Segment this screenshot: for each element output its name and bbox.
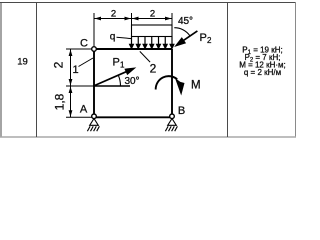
30 deg arc (118, 75, 120, 86)
svg-text:P: P (113, 57, 120, 69)
svg-text:1: 1 (120, 60, 125, 69)
svg-text:2: 2 (150, 62, 157, 76)
frame member C-D (top beam) (94, 48, 172, 50)
left dim extension line at C level (66, 48, 92, 50)
svg-text:2: 2 (207, 36, 212, 45)
svg-text:1,8: 1,8 (53, 93, 67, 110)
support at A (pin with hatching) (87, 119, 99, 132)
q arrows (130, 37, 174, 49)
top dimension extension line above C (93, 13, 95, 46)
table column separator 2 (227, 2, 229, 137)
svg-text:C: C (80, 38, 88, 50)
svg-text:2: 2 (111, 8, 116, 19)
svg-text:P: P (200, 32, 207, 44)
left dim extension line at A level (66, 116, 92, 118)
svg-text:30°: 30° (124, 76, 139, 87)
frame member D-B (right column) (171, 49, 173, 117)
q leader line (117, 37, 132, 38)
pin circle A (92, 114, 97, 119)
moment M arrowhead (175, 78, 185, 96)
svg-text:2: 2 (51, 61, 65, 68)
table column separator 1 (36, 2, 38, 137)
svg-text:2: 2 (150, 8, 155, 19)
left dim arrows (69, 50, 73, 117)
svg-text:q: q (110, 32, 116, 43)
moment M arc (156, 76, 178, 89)
top dimension line (94, 18, 172, 20)
svg-text:A: A (80, 104, 88, 116)
left dim extension / P1 reference line (66, 85, 94, 87)
support at B (pin with hatching) (165, 119, 177, 132)
hinge circle C (92, 47, 97, 52)
top dimension right extension line (171, 13, 173, 49)
frame member A-B (bottom beam) (94, 116, 172, 118)
svg-text:19: 19 (17, 56, 28, 67)
svg-text:M: M (191, 79, 201, 91)
svg-text:B: B (178, 105, 185, 117)
svg-text:45°: 45° (178, 16, 193, 27)
table outer border (0, 2, 296, 137)
given values text (239, 46, 286, 78)
top dimension mid extension line (131, 13, 133, 25)
top dim arrows (95, 17, 172, 21)
force P2 arrow (180, 31, 197, 43)
frame member A-C (left column) (93, 49, 95, 117)
force P1 arrow (94, 71, 129, 86)
45 deg arc (174, 28, 190, 36)
svg-text:q = 2 кН/м: q = 2 кН/м (244, 68, 281, 77)
distributed load q box (132, 25, 173, 37)
svg-text:1: 1 (72, 64, 78, 76)
pin circle B (170, 114, 175, 119)
left dimension line (70, 49, 72, 117)
